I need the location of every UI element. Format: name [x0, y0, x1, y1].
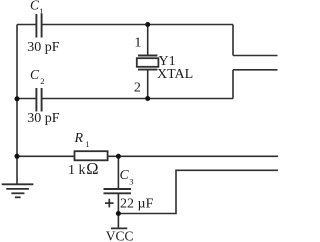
- svg-text:30 pF: 30 pF: [27, 40, 60, 55]
- wire C2 right segment: [42, 98, 233, 100]
- crystal Y1: [137, 56, 159, 70]
- node: R1 rail junction: [15, 154, 20, 159]
- wire lower stub: [233, 69, 278, 71]
- svg-text:2: 2: [134, 80, 141, 95]
- svg-text:C: C: [30, 67, 40, 82]
- svg-text:VCC: VCC: [106, 228, 134, 242]
- node: C3 top junction: [116, 154, 121, 159]
- svg-text:XTAL: XTAL: [157, 67, 193, 82]
- capacitor C1: [36, 14, 41, 38]
- node: crystal top junction: [145, 22, 150, 27]
- svg-text:22 µF: 22 µF: [120, 196, 154, 211]
- label plus polarity: [105, 199, 114, 208]
- svg-text:1: 1: [85, 139, 89, 149]
- resistor R1: [75, 151, 108, 160]
- capacitor C2: [36, 88, 41, 112]
- svg-text:Ω: Ω: [86, 159, 98, 178]
- wire C3 top branch: [117, 156, 119, 189]
- svg-text:3: 3: [129, 177, 133, 187]
- svg-text:2: 2: [40, 76, 44, 86]
- node: C2 rail junction: [15, 96, 20, 101]
- svg-text:1 k: 1 k: [68, 163, 86, 178]
- wire crystal top branch: [147, 25, 149, 56]
- wire C3 bottom to VCC junction: [117, 193, 119, 228]
- ground: [2, 184, 34, 197]
- svg-text:C: C: [120, 167, 130, 182]
- wire lower-right vertical: [232, 70, 234, 99]
- wire C1 left segment: [17, 24, 36, 26]
- wire top-right vertical to upper stub: [232, 25, 234, 56]
- svg-text:30 pF: 30 pF: [27, 111, 60, 126]
- capacitor C3 (polarized): [104, 189, 132, 193]
- wire left rail: [16, 25, 18, 185]
- wire bottom-right run: [118, 170, 278, 213]
- svg-text:1: 1: [39, 6, 43, 16]
- svg-text:1: 1: [134, 35, 141, 50]
- wire crystal bottom branch: [147, 70, 149, 99]
- VCC terminal bar: [111, 227, 127, 229]
- svg-text:R: R: [74, 131, 84, 146]
- wire upper stub: [233, 55, 278, 57]
- wire R1 left segment: [17, 155, 75, 157]
- wire C2 left segment: [17, 98, 36, 100]
- node: C3 bottom junction: [116, 211, 121, 216]
- node: crystal bottom junction: [145, 96, 150, 101]
- wire C1 right segment to top-right corner: [42, 24, 233, 26]
- wire R1 right segment: [108, 155, 278, 157]
